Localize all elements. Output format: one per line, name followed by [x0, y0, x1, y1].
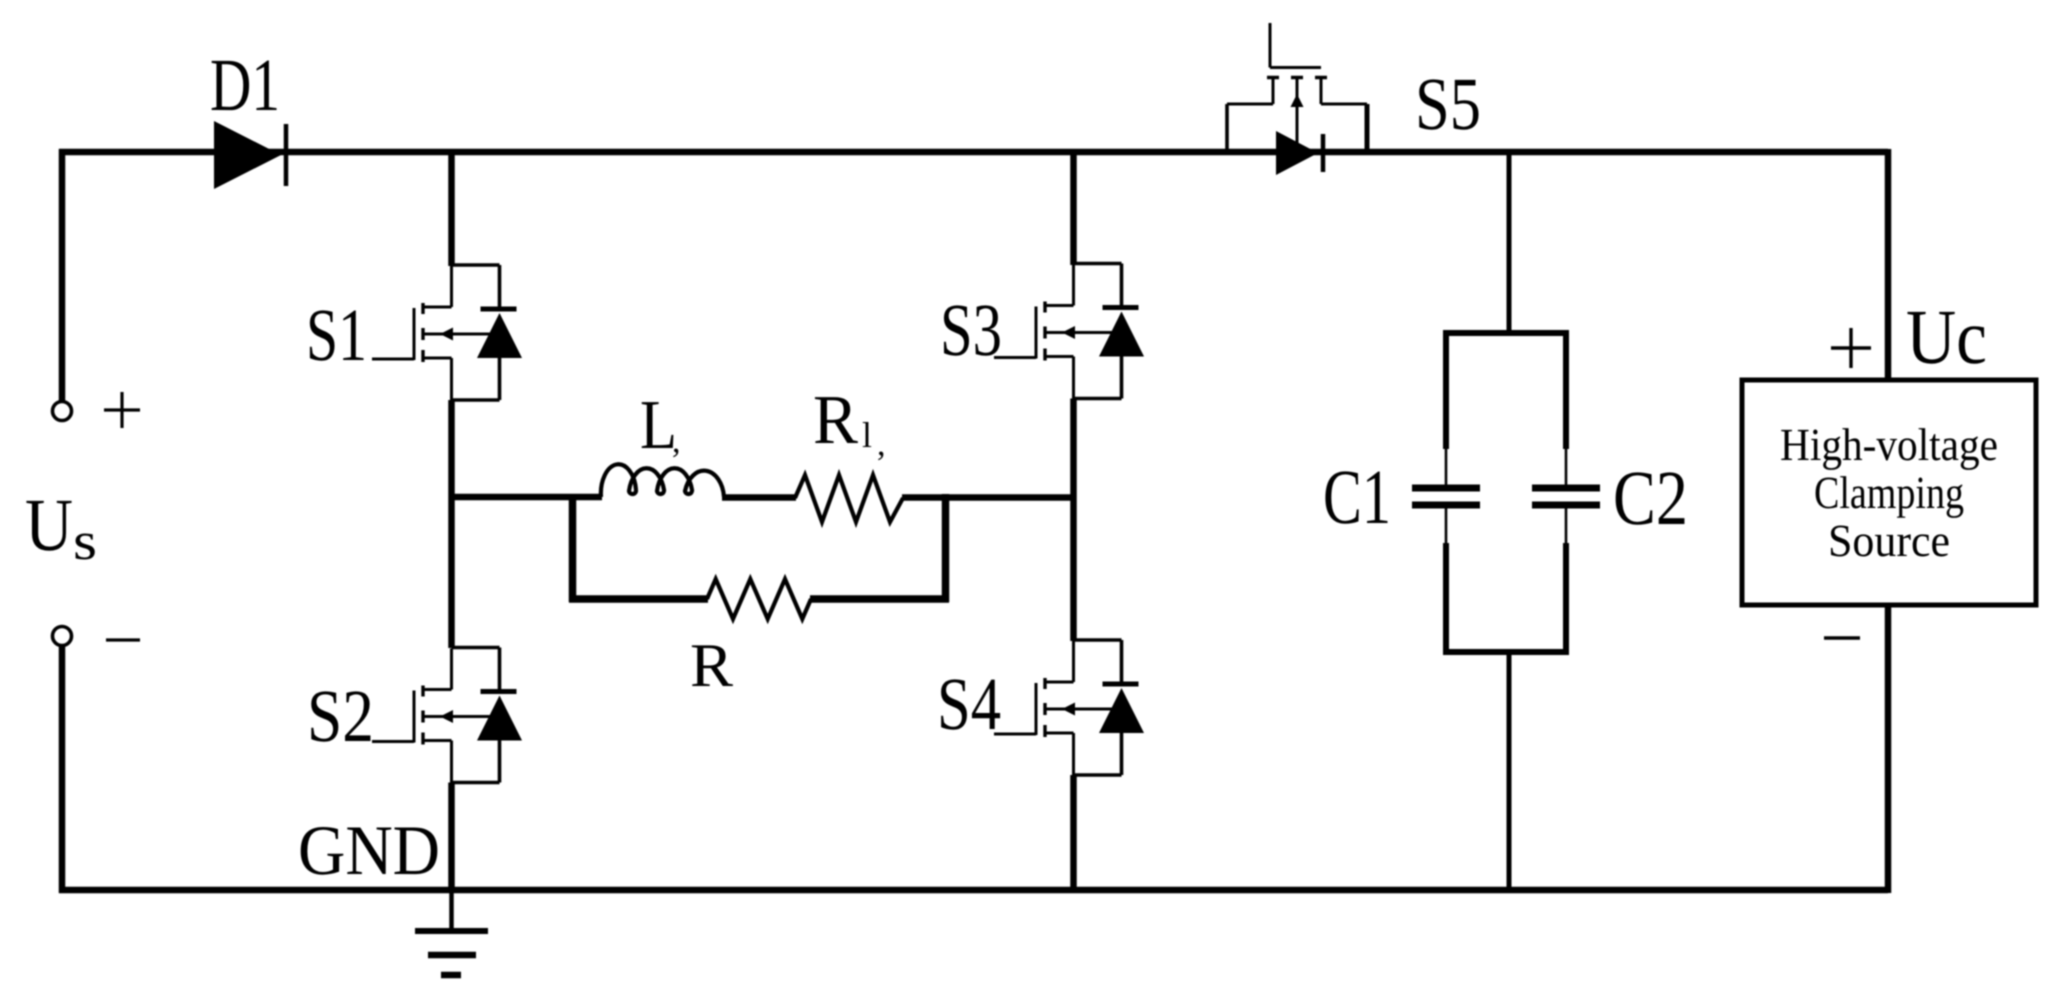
- svg-text:l: l: [862, 415, 872, 455]
- node positive terminal circle: [53, 402, 72, 421]
- label minus sign at Uc: [1824, 636, 1860, 639]
- label minus sign of source Us: [106, 638, 140, 641]
- svg-text:Source: Source: [1828, 515, 1950, 566]
- svg-text:Clamping: Clamping: [1814, 467, 1964, 518]
- svg-text:,: ,: [877, 426, 886, 463]
- wire between L and RL: [722, 494, 796, 501]
- transistor S3: [994, 264, 1144, 399]
- wire R branch left vertical: [569, 494, 577, 602]
- wire R branch lower left: [569, 595, 708, 603]
- svg-text:GND: GND: [298, 812, 440, 890]
- wire R branch right vertical: [942, 494, 950, 602]
- wire right leg between S3 and node: [1070, 399, 1077, 642]
- wire left source lead upper: [59, 149, 66, 401]
- wire bottom rail: [59, 887, 1888, 894]
- svg-text:S5: S5: [1415, 63, 1481, 146]
- label plus sign at Uc: [1831, 328, 1871, 368]
- diode D1: [214, 121, 286, 189]
- wire left leg source of S2 to bottom rail: [448, 783, 455, 894]
- wire capacitor bank feed: [1507, 152, 1512, 333]
- wire mid branch node line left: [452, 494, 603, 501]
- svg-text:,: ,: [672, 423, 681, 460]
- wire right edge lower: [1885, 603, 1892, 893]
- svg-text:High-voltage: High-voltage: [1780, 419, 1998, 470]
- wire R branch lower right: [810, 595, 949, 603]
- label plus sign of source Us: [104, 392, 140, 428]
- node negative terminal circle: [53, 627, 72, 646]
- svg-text:C2: C2: [1613, 454, 1688, 541]
- wire right edge upper: [1885, 149, 1892, 382]
- svg-text:R: R: [813, 382, 858, 459]
- transistor S4: [994, 640, 1144, 775]
- svg-text:S2: S2: [307, 675, 374, 758]
- wire capacitor bottom bracket: [1443, 649, 1569, 655]
- wire top rail: [59, 149, 1888, 156]
- svg-text:S4: S4: [937, 663, 1001, 746]
- svg-text:S1: S1: [306, 294, 367, 377]
- transistor S5: [1227, 23, 1367, 175]
- svg-text:s: s: [73, 511, 97, 571]
- ground: [415, 890, 488, 975]
- wire left leg drain of S1: [448, 152, 455, 266]
- resistor R: [707, 579, 811, 619]
- wire right leg drain of S3: [1070, 152, 1077, 265]
- svg-text:R: R: [690, 632, 734, 700]
- wire capacitor bank to bottom rail: [1507, 652, 1512, 890]
- svg-text:U: U: [25, 484, 73, 567]
- high-voltage clamping source box: [1742, 380, 2036, 605]
- capacitor C2: [1532, 333, 1600, 652]
- svg-text:C1: C1: [1323, 453, 1391, 540]
- transistor S2: [372, 648, 522, 783]
- wire left source lead lower: [59, 646, 66, 893]
- svg-text:Uc: Uc: [1906, 293, 1987, 380]
- wire between RL and right leg: [902, 494, 1074, 501]
- capacitor C1: [1412, 333, 1480, 652]
- resistor RL: [795, 475, 903, 522]
- wire left leg between S1 and node: [448, 400, 455, 648]
- svg-text:D1: D1: [210, 44, 280, 127]
- inductor L: [601, 464, 724, 497]
- wire capacitor top bracket: [1443, 330, 1569, 336]
- wire right leg source of S4 to bottom rail: [1070, 775, 1077, 893]
- transistor S1: [372, 265, 522, 400]
- svg-text:S3: S3: [940, 289, 1002, 372]
